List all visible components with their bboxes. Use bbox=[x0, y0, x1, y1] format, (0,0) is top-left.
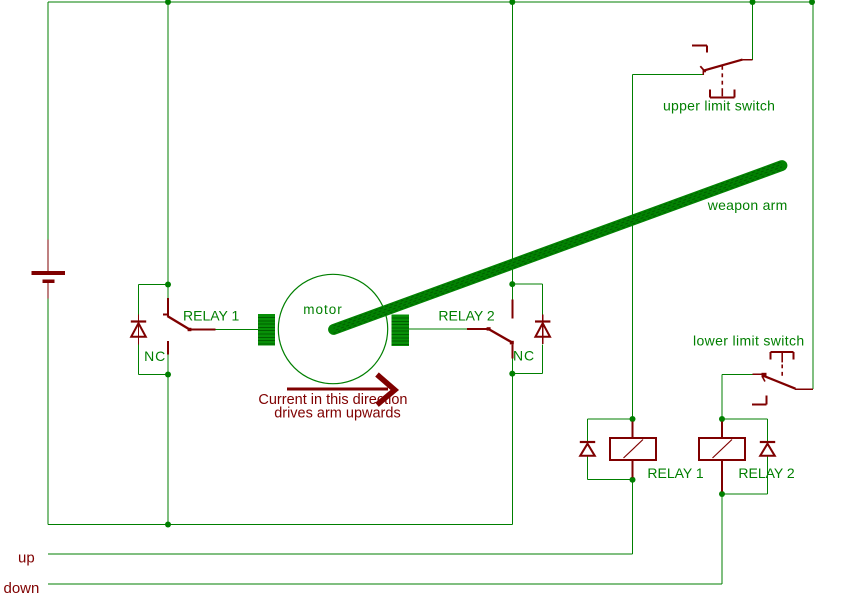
svg-text:RELAY 2: RELAY 2 bbox=[438, 307, 495, 323]
svg-text:drives arm upwards: drives arm upwards bbox=[274, 406, 401, 422]
svg-text:motor: motor bbox=[303, 302, 343, 317]
svg-text:up: up bbox=[18, 550, 35, 567]
svg-text:weapon arm: weapon arm bbox=[707, 197, 788, 213]
svg-text:lower limit switch: lower limit switch bbox=[693, 333, 805, 349]
svg-text:RELAY 2: RELAY 2 bbox=[738, 465, 795, 481]
svg-text:NC: NC bbox=[513, 348, 535, 364]
svg-text:RELAY 1: RELAY 1 bbox=[183, 308, 240, 324]
svg-text:upper limit switch: upper limit switch bbox=[663, 98, 775, 114]
svg-text:RELAY 1: RELAY 1 bbox=[647, 465, 704, 481]
svg-text:NC: NC bbox=[144, 348, 166, 364]
svg-text:down: down bbox=[4, 580, 40, 597]
